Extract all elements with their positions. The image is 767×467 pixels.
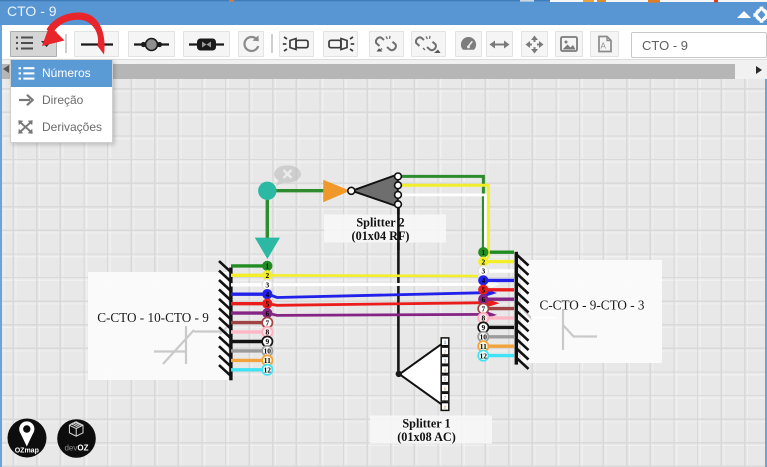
amplifier orange triangle bbox=[323, 180, 350, 203]
splitter S1 body bbox=[400, 342, 446, 407]
left fiber 1 stub (green) bbox=[231, 264, 264, 267]
splitter S2 label bbox=[324, 215, 446, 244]
wire fiber 4 blue left to right with direction arrow bbox=[268, 293, 485, 298]
splitter S2 body bbox=[352, 174, 398, 206]
left fiber 3 stub (white) bbox=[231, 283, 264, 286]
left fiber 6 stub (purple) bbox=[231, 311, 264, 314]
left fiber 9 number badge bbox=[262, 336, 272, 346]
splitter S2 output wire 4 black down to S1 bbox=[397, 204, 400, 371]
right fiber 5 stub (red) bbox=[486, 288, 514, 291]
right fiber 2 number badge bbox=[478, 256, 488, 266]
left fiber 11 stub (orange) bbox=[231, 359, 264, 362]
wire fiber 3 white left to right bbox=[270, 283, 492, 287]
left fiber 10 stub (gray) bbox=[231, 349, 264, 352]
right fiber 11 number badge bbox=[478, 341, 488, 351]
right fiber 3 number badge bbox=[478, 266, 488, 276]
left fiber 5 stub (red) bbox=[231, 302, 264, 305]
left fiber 8 stub (pink) bbox=[231, 330, 264, 333]
left panel splice glyph bbox=[154, 322, 232, 364]
left fiber 4 stub (blue) bbox=[231, 293, 264, 296]
right fiber 8 number badge bbox=[478, 313, 488, 323]
right fiber 6 number badge bbox=[478, 294, 488, 304]
left fiber 10 number badge bbox=[262, 346, 272, 356]
left fiber 8 number badge bbox=[262, 327, 272, 337]
right fiber 6 stub (purple) bbox=[486, 298, 514, 301]
right fiber 8 stub (pink) bbox=[486, 316, 514, 319]
left cable-end comb bbox=[219, 261, 233, 380]
left fiber 7 stub (brown) bbox=[231, 321, 264, 324]
wire green hub down to drop arrow bbox=[266, 197, 269, 239]
left fiber 6 number badge bbox=[262, 308, 272, 318]
wire fiber 5 red left to right with direction arrow bbox=[268, 303, 487, 306]
red annotation arrow bbox=[42, 12, 105, 54]
left fiber 4 number badge bbox=[262, 289, 272, 299]
left fiber 2 number badge bbox=[262, 270, 272, 280]
wire fiber 6 purple left to right with direction arrow bbox=[268, 313, 485, 315]
teal drop arrow bbox=[255, 238, 280, 259]
splitter S2 output wire 4 black segment over label bbox=[397, 207, 400, 250]
splitter S2 output wire 1 green bbox=[398, 176, 483, 250]
hub node teal circle bbox=[258, 182, 276, 200]
right fiber 7 stub (brown) bbox=[486, 307, 514, 310]
right fiber 10 stub (gray) bbox=[486, 335, 514, 338]
splitter S2 output ports bbox=[395, 173, 402, 180]
left fiber 9 stub (black) bbox=[231, 340, 264, 343]
right fiber 4 stub (blue) bbox=[486, 279, 514, 282]
right fiber 7 number badge bbox=[478, 303, 488, 313]
splitter S1 label bbox=[370, 416, 492, 445]
left fiber 12 number badge bbox=[262, 365, 272, 375]
left splice panel C-CTO-10-CTO-9 bbox=[88, 272, 228, 380]
left fiber 3 number badge bbox=[262, 280, 272, 290]
splitter S1 input node bbox=[396, 371, 402, 377]
wire fiber 2 yellow left to right bbox=[270, 274, 478, 277]
comment balloon bbox=[274, 165, 301, 186]
splitter S2 input port bbox=[348, 187, 355, 194]
right fiber 11 stub (orange) bbox=[486, 345, 514, 348]
wire green from hub circle to amplifier bbox=[274, 189, 324, 192]
OZmap logo bbox=[8, 419, 47, 458]
right fiber 1 number badge bbox=[478, 247, 488, 257]
right fiber 4 number badge bbox=[478, 275, 488, 285]
right cable-end comb bbox=[515, 252, 529, 369]
right fiber 12 number badge bbox=[478, 350, 488, 360]
left fiber 7 number badge bbox=[262, 317, 272, 327]
right fiber 10 number badge bbox=[478, 332, 488, 342]
right panel splice glyph bbox=[519, 305, 597, 350]
devOZ logo bbox=[57, 419, 96, 458]
right splice panel C-CTO-9-CTO-3 bbox=[521, 260, 662, 363]
right fiber 9 number badge bbox=[478, 322, 488, 332]
splitter S1 output ports bbox=[441, 338, 449, 411]
splitter S2 output wire 2 yellow bbox=[398, 185, 488, 261]
right fiber 12 stub (cyan) bbox=[486, 354, 514, 357]
right fiber 5 number badge bbox=[478, 285, 488, 295]
left fiber 11 number badge bbox=[262, 355, 272, 365]
left fiber 1 number badge bbox=[262, 261, 272, 271]
left fiber 5 number badge bbox=[262, 299, 272, 309]
splitter S2 output wire 3 white bbox=[398, 195, 485, 268]
right fiber 1 stub (green) bbox=[486, 250, 514, 253]
right fiber 9 stub (black) bbox=[486, 326, 514, 329]
right fiber 2 stub (yellow) bbox=[486, 260, 514, 263]
right fiber 3 stub (white) bbox=[486, 269, 514, 272]
left fiber 12 stub (cyan) bbox=[231, 368, 264, 371]
left fiber 2 stub (yellow) bbox=[231, 274, 264, 277]
